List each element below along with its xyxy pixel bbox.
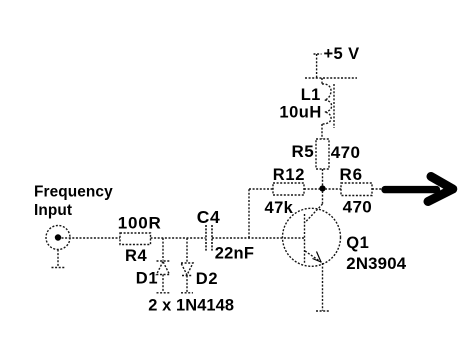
junction node [319,185,325,191]
svg-text:47k: 47k [265,199,294,217]
output arrow [385,177,453,202]
wire node to R6 [325,188,341,190]
label Frequency Input [34,183,113,219]
resistor R5 [316,139,329,169]
ground (input connector) [52,267,66,269]
wire R6 to output arrow [372,188,383,190]
wire Q1 emitter to ground [322,263,324,311]
svg-text:Input: Input [34,202,72,219]
diode D1 [157,261,170,275]
wire +5V rail [305,77,357,79]
ground (D1) [157,292,170,294]
wire to diode D1 [162,238,164,261]
connector J1 Frequency Input [46,226,70,250]
svg-text:100R: 100R [118,213,162,232]
wire input to R4 [62,237,121,239]
svg-text:D1: D1 [136,269,159,287]
power +5 V symbol [314,54,322,78]
diode D2 [181,263,193,276]
svg-text:470: 470 [331,143,361,162]
resistor R6 [341,183,372,196]
svg-text:R12: R12 [273,166,305,184]
wire C4 to Q1 base [212,237,305,239]
resistor R12 [273,183,304,195]
wire node to Q1 collector [322,191,324,204]
svg-text:R4: R4 [125,247,148,265]
svg-text:D2: D2 [196,270,219,288]
ground (emitter) [316,310,330,312]
wire to diode D2 [186,238,188,263]
wire R12 to node [304,188,320,190]
wire input to ground stub [57,250,59,268]
svg-text:R5: R5 [292,142,315,161]
resistor R4 [120,233,151,245]
svg-text:L1: L1 [301,86,321,104]
wire riser to R12 [249,189,273,238]
svg-text:R6: R6 [340,165,364,184]
capacitor C4 [206,225,212,251]
svg-text:470: 470 [343,198,373,217]
svg-text:Q1: Q1 [346,234,369,252]
svg-text:22nF: 22nF [215,244,254,262]
svg-text:C4: C4 [197,207,221,227]
svg-text:Frequency: Frequency [34,183,113,200]
svg-text:+5 V: +5 V [324,45,360,63]
wire D1 to ground [162,275,164,293]
wire R4 to C4 [151,237,206,239]
ground (D2) [181,292,193,294]
wire R5 to node [322,169,324,186]
transistor Q1 [283,204,341,266]
inductor L1 [322,78,334,139]
svg-text:10uH: 10uH [279,104,321,122]
svg-text:2N3904: 2N3904 [346,254,406,273]
svg-text:2 x 1N4148: 2 x 1N4148 [148,297,234,315]
wire D2 to ground [186,276,188,293]
